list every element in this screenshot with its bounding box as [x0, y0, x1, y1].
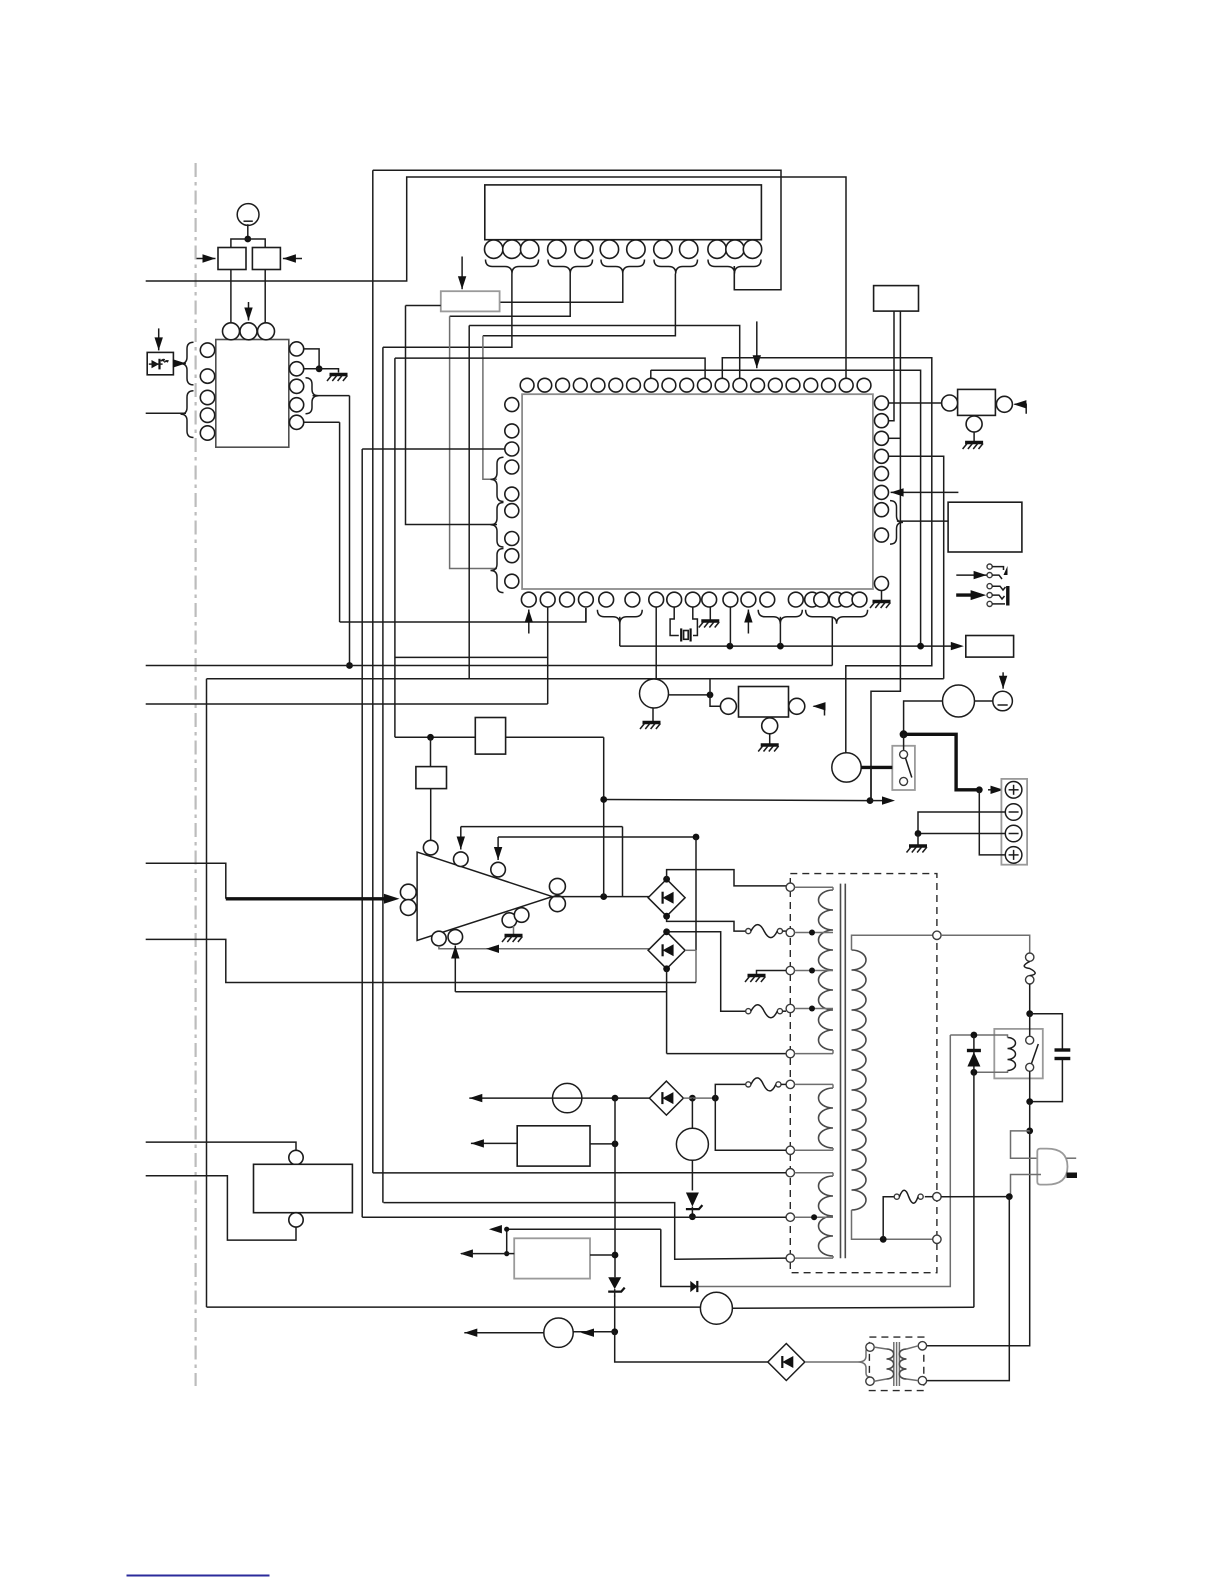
wire plug down	[927, 1197, 1010, 1381]
wire line679	[207, 678, 944, 680]
microphone MIC1	[237, 204, 259, 226]
node B2 feed	[427, 734, 434, 741]
wire bus U1-b34 down	[349, 396, 351, 666]
wire loop down	[715, 1098, 786, 1150]
U3 top pin 11	[698, 378, 712, 392]
U3 left pin 4	[505, 460, 519, 474]
arrow hook into AMP2	[1015, 404, 1027, 413]
node plug join	[1006, 1193, 1013, 1200]
arrow into batt +	[988, 789, 1004, 791]
U3 top pin 17	[804, 378, 818, 392]
T1 primary A coil	[819, 890, 834, 1050]
T1 term 5	[786, 1049, 794, 1057]
wire line370	[651, 370, 921, 646]
U3 top pin 18	[822, 378, 836, 392]
T1 core	[840, 884, 842, 1259]
wire U1 pin5 right	[304, 421, 340, 423]
block B1	[475, 718, 505, 755]
U4 left pin	[720, 698, 736, 714]
brace U2 pins 6-7	[601, 260, 645, 274]
motor M6 body	[676, 1128, 708, 1160]
wire TF1 down	[1029, 984, 1031, 1014]
node plug top	[1026, 1128, 1033, 1135]
wire corner pin gnd	[881, 591, 883, 601]
AMP2 bottom pin	[966, 416, 982, 432]
amplifier AMP1 body	[417, 852, 552, 940]
indicator LED2	[544, 1318, 573, 1347]
U3 bottom pin 16	[814, 592, 829, 607]
wire line800	[604, 800, 870, 801]
switch SW1 contacts	[903, 734, 905, 750]
wire relay down	[1029, 1102, 1031, 1131]
wire BR1 bottom route	[667, 916, 746, 931]
wire zd1 to BR3	[615, 1332, 768, 1362]
IC U1 body	[216, 340, 289, 448]
node l646 b	[777, 643, 784, 650]
crystal X1 left lead	[670, 607, 679, 636]
T2 core	[893, 1342, 895, 1386]
wire M4 left	[904, 701, 943, 734]
node on line645	[346, 662, 353, 669]
block M2 (mic amp R)	[252, 248, 280, 270]
wire line646	[620, 645, 953, 647]
IC U2 body (DSP)	[485, 185, 762, 240]
U1 right pin 1	[290, 342, 304, 356]
wire 1229 corner down	[661, 1229, 691, 1286]
U3 left pin 8	[505, 549, 519, 563]
footer rule	[127, 1575, 270, 1577]
block U4 (motor driver)	[739, 687, 789, 718]
wire bus696 lower	[695, 950, 697, 982]
block B2	[416, 767, 447, 789]
brace U3 right pins 7-8	[890, 501, 903, 544]
U2 pin 12	[743, 240, 761, 258]
T2 left coil	[887, 1349, 894, 1379]
wire bus950 down	[697, 1035, 950, 1287]
U1 left pin 2	[200, 369, 214, 383]
wire node to U4	[710, 695, 721, 706]
jack J2 contact 3	[987, 601, 992, 606]
fuse F3	[746, 1082, 751, 1087]
wire BR4 to loop	[683, 1097, 715, 1099]
block REG1	[517, 1126, 590, 1166]
U3 left pin 2	[505, 424, 519, 438]
U2 pin 8	[654, 240, 672, 258]
wire sec tap up	[883, 1197, 894, 1240]
U3 bottom pin 12	[741, 592, 756, 607]
wire brace1314 stem	[779, 617, 781, 646]
U3 top pin 2	[538, 378, 552, 392]
block U5 bottom pin	[289, 1213, 303, 1227]
U2 pin 5	[575, 240, 593, 258]
U4 bottom pin	[762, 718, 778, 734]
node BR1 bottom	[663, 913, 670, 920]
wire F2 to T1	[783, 1010, 787, 1012]
U3 top pin 16	[786, 378, 800, 392]
wire fuse line	[941, 1196, 1009, 1198]
brace U1 left pins 1-2	[181, 342, 194, 385]
bold wire input1 to AMP1	[226, 897, 388, 900]
photo sensor PD1 symbol	[152, 360, 160, 368]
U3 top pin 10	[680, 378, 694, 392]
wire brace78 to U8	[897, 520, 948, 522]
wire F3 to T1	[781, 1083, 786, 1085]
T1 term 10	[786, 1254, 794, 1262]
U3 bottom pin 9	[685, 592, 700, 607]
AMP1 out pin a	[549, 878, 565, 894]
wire BR2 bottom down	[666, 969, 668, 1054]
wire plug upper lead	[1011, 1131, 1042, 1158]
resonator X2 box	[874, 286, 919, 312]
wire bus nest2 down	[361, 449, 363, 1217]
AMP1 top pin3	[491, 862, 506, 877]
zener ZD1	[608, 1277, 621, 1289]
wire bus nest1 down (from loop)	[372, 170, 374, 1173]
T2 lead a	[874, 1347, 886, 1349]
relay RY1 box	[994, 1029, 1043, 1079]
block U9 (phones driver)	[966, 636, 1014, 658]
wire node branch up	[709, 679, 711, 695]
ground G-U1	[330, 373, 348, 376]
wire U1 brace34 to bus	[313, 395, 350, 397]
wire batt -2	[918, 833, 1005, 835]
node batt plus	[976, 786, 983, 793]
wire U3 bp7 down (spindle)	[655, 607, 657, 680]
brace U2 pins 1-3	[486, 260, 539, 274]
wire X2legB join	[870, 767, 872, 800]
node reg2	[612, 1252, 619, 1259]
T2 lead c	[907, 1346, 919, 1349]
relay coil	[1008, 1038, 1016, 1071]
motor M4 body	[943, 685, 975, 717]
arrow into U3 bp1	[528, 610, 530, 634]
node cap top	[1026, 1010, 1033, 1017]
T2 lead b	[874, 1379, 886, 1381]
U3 bottom pin 4	[579, 592, 594, 607]
wire coil top lead	[950, 1035, 1007, 1038]
wire bus U1-p5 down	[339, 422, 341, 622]
motor M5 body	[832, 753, 861, 782]
wire M1 to IC1 pin1	[230, 270, 232, 324]
wire brace56 stem to line646	[619, 617, 621, 646]
T1 sec top term	[933, 931, 941, 939]
jack J2 contact 1	[987, 584, 992, 589]
wire line1330 left	[464, 1332, 544, 1334]
U3 bottom pin 2	[540, 592, 555, 607]
wire AMP1 gnd stem	[513, 926, 515, 935]
T1 primary C coil	[819, 1176, 834, 1256]
wire U3 rp1 to AMP2	[889, 402, 942, 404]
brace U3 bp13-14	[758, 610, 802, 624]
node U1 pin2 junction	[316, 365, 323, 372]
rectifier BR2	[648, 932, 685, 969]
wire line991	[455, 991, 666, 993]
U4 right pin	[789, 698, 805, 714]
U3 top pin 8	[644, 378, 658, 392]
T1 term 2 tap	[786, 928, 794, 936]
ground G-AMP1	[505, 934, 523, 937]
node relay out	[1026, 1098, 1033, 1105]
switch SW1 box	[892, 746, 915, 790]
node l646 c	[917, 643, 924, 650]
T2 right coil	[899, 1349, 906, 1379]
AMP1 bot pin1	[432, 931, 447, 946]
AMP1 bot pin3	[502, 913, 517, 928]
U3 bottom pin 5	[599, 592, 614, 607]
zener ZD2	[686, 1193, 699, 1207]
T1 term 3 tap	[786, 966, 794, 974]
wire REG1 out	[590, 1143, 615, 1145]
node bus603 tap	[600, 796, 607, 803]
wire line622	[340, 608, 586, 622]
wire amp output	[552, 896, 649, 898]
rectifier BR3	[768, 1344, 805, 1381]
U3 top pin 4	[573, 378, 587, 392]
bold wire to battery +	[904, 734, 980, 790]
ground G-BT1	[909, 844, 927, 847]
AMP1 in pin a	[400, 884, 416, 900]
T1 secondary bottom lead	[852, 1210, 933, 1239]
arrow into U3 rp6	[891, 491, 959, 493]
wire line1229	[507, 1228, 661, 1230]
U3 top pin 6	[609, 378, 623, 392]
T1 term 9 tap	[786, 1213, 794, 1221]
T1 sec bottom term	[933, 1235, 941, 1243]
U2 pin 9	[680, 240, 698, 258]
brace U3 left pins 4-5	[491, 457, 504, 501]
wire bus nest3 down	[382, 347, 384, 1202]
brace U3 bp15-19	[806, 610, 868, 624]
gray wire BR2 right	[685, 949, 696, 951]
U1 right pin 2	[290, 362, 304, 376]
jack J2 sleeve	[1006, 586, 1009, 606]
wire line1330	[573, 1331, 615, 1333]
T2 term b	[866, 1377, 874, 1385]
wire REG2 in	[507, 1253, 515, 1255]
battery terminal 3 (-)	[1005, 825, 1022, 842]
wire reg2 T	[506, 1229, 508, 1253]
wire input to U1 brace2	[146, 412, 186, 414]
U3 top pin 12	[715, 378, 729, 392]
U3 right pin 3	[875, 431, 889, 445]
T1 secondary coil	[852, 950, 867, 1210]
crystal X1 body	[684, 631, 689, 640]
wire DL1 left route	[406, 305, 441, 307]
jack J1 contact 1	[987, 564, 992, 569]
wire U2 brace1 route	[383, 274, 512, 348]
arrow into J1	[956, 574, 986, 576]
battery terminal 1 (+)	[1005, 782, 1022, 799]
wire U3 bp2 down	[547, 607, 549, 704]
wire line1173 to T8	[373, 1172, 786, 1174]
U3 bottom pin 11	[723, 592, 738, 607]
node l646 a	[727, 643, 734, 650]
arrow PD1 to brace	[174, 362, 186, 364]
T2 term c	[918, 1342, 926, 1350]
node t1229	[504, 1227, 509, 1232]
wire plug lower lead	[1011, 1175, 1042, 1197]
wire sec to thermal fuse	[941, 935, 1030, 953]
transformer T2 enclosure	[869, 1337, 923, 1391]
wire loop outer top	[373, 170, 781, 289]
U1 left pin 1	[200, 343, 214, 357]
U3 left pin 9	[505, 574, 519, 588]
U2 pin 7	[627, 240, 645, 258]
wire batt -1	[918, 812, 1005, 834]
U2 pin 10	[708, 240, 726, 258]
U3 left pin 6	[505, 504, 519, 518]
wire feed AMP1 pin3	[498, 836, 696, 838]
arrow hook into U4	[814, 706, 825, 715]
U3 right pin 1	[875, 396, 889, 410]
fold line (dash-dot page divider)	[195, 163, 197, 1386]
arrow into M1	[197, 258, 216, 260]
U3 right pin 8	[875, 528, 889, 542]
arrow into SW1 bottom	[870, 800, 884, 802]
node BR2 bottom	[663, 965, 670, 972]
T2 lead d	[907, 1379, 919, 1381]
wire U1 pin2 to ground	[304, 369, 339, 373]
wire B2 stem up	[430, 737, 432, 766]
rectifier BR1	[648, 879, 685, 916]
U3 top pin 1	[520, 378, 534, 392]
AMP1 top pin2	[454, 852, 469, 867]
plug P1 prong 1	[1067, 1157, 1077, 1159]
wire zd1 down	[614, 1295, 616, 1332]
wire BR1 top route	[667, 870, 786, 886]
plug P1 body	[1037, 1149, 1067, 1185]
wire coil bottom lead	[974, 1071, 1008, 1073]
U3 bottom pin 19	[852, 592, 867, 607]
wire line1307 right	[732, 1306, 974, 1309]
transformer T1 enclosure	[790, 874, 937, 1273]
wire BR2 top route	[667, 932, 746, 1011]
U2 pin 4	[548, 240, 566, 258]
U3 right pin 4	[875, 449, 889, 463]
wire bus603	[603, 737, 605, 896]
arrow into cw symbol	[1002, 672, 1004, 688]
AMP2 right pin	[996, 396, 1012, 412]
U3 right pin 7	[875, 503, 889, 517]
wire X2 leg B	[871, 311, 900, 800]
ground G-U3B	[701, 619, 719, 622]
capacitor C1	[1055, 1048, 1071, 1051]
wire brace1519 stem	[831, 617, 833, 666]
U3 left pin 7	[505, 532, 519, 546]
wire U2 brace5 stem	[733, 266, 735, 290]
block U5 body	[254, 1164, 353, 1212]
wire U3 rp4 route	[889, 456, 944, 679]
wire line657	[395, 656, 548, 658]
T2 term a	[866, 1343, 874, 1351]
wire B2 to AMP1 pin1	[430, 789, 432, 841]
bold arrow into J2	[956, 593, 975, 596]
wire bus nest6 down	[468, 326, 470, 679]
diode D2	[690, 1281, 697, 1292]
U3 bottom pin 15	[805, 592, 820, 607]
wire AMP2 gnd stem	[973, 432, 975, 442]
wire line704	[146, 703, 548, 705]
U1 left pin 5	[200, 426, 214, 440]
U2 pin 2	[503, 240, 521, 258]
U1 right pin 4	[290, 398, 304, 412]
U3 left pin 5	[505, 487, 519, 501]
wire line1203 route	[384, 1203, 787, 1260]
block M1 (mic amp L)	[218, 248, 246, 270]
wire to T1 tap5	[667, 1053, 786, 1055]
battery holder BT1	[1001, 779, 1027, 865]
U3 top pin 14	[751, 378, 765, 392]
wire line737 left	[395, 736, 475, 738]
node batt minus	[915, 830, 922, 837]
wire U3 bp4 up	[585, 608, 587, 622]
node BR1 top	[663, 876, 670, 883]
node M3 out	[707, 692, 714, 699]
U3 bottom pin 10	[702, 592, 717, 607]
node sw feed	[900, 730, 908, 738]
battery terminal 4 (+)	[1005, 847, 1022, 864]
wire led1 to BR4	[615, 1097, 650, 1099]
relay contacts	[1026, 1036, 1034, 1044]
wire line358b	[722, 358, 932, 753]
lamp LA1	[700, 1292, 732, 1324]
wire M2 to IC1 pin3	[264, 270, 266, 324]
wire input4	[146, 1176, 296, 1240]
wire U2 brace4 route	[483, 274, 676, 336]
brace U2 pins 10-12	[708, 260, 761, 274]
wire T3 gnd	[757, 971, 787, 975]
wire M6 down	[691, 1160, 693, 1190]
U3 right pin 6	[875, 485, 889, 499]
U3 top pin 9	[662, 378, 676, 392]
wire M3 gnd stem	[652, 708, 654, 722]
T1 fuse term	[933, 1193, 941, 1201]
node amp out	[600, 893, 607, 900]
U3 top pin 13	[733, 378, 747, 392]
U2 pin 11	[726, 240, 744, 258]
wire line358a	[395, 358, 705, 378]
wire input1	[146, 863, 226, 899]
wire REG2 out	[590, 1254, 615, 1256]
wire bus974 down	[973, 1072, 975, 1307]
brace U3 left pins 8-9	[491, 549, 504, 593]
T1 term 1	[786, 883, 794, 891]
arrow into M2	[283, 258, 302, 260]
AMP1 bot pin2	[448, 930, 463, 945]
U3 right corner pin	[875, 577, 889, 591]
node zd2	[689, 1213, 696, 1220]
U3 bottom pin 3	[560, 592, 575, 607]
wire F1 to T1	[783, 930, 787, 932]
T1 term 6	[786, 1080, 794, 1088]
AMP1 top pin1	[423, 840, 438, 855]
wire relay out	[1029, 1071, 1031, 1101]
arrow into PD1	[158, 328, 160, 350]
node mic junction	[244, 236, 251, 243]
node t1253	[504, 1251, 509, 1256]
U3 top pin 5	[591, 378, 605, 392]
wire U3 bp11 down	[729, 607, 731, 646]
wire U3 rp2 up	[889, 311, 895, 421]
arrow line646 into U9	[951, 642, 964, 650]
U3 top pin 7	[627, 378, 641, 392]
wire line737 right	[506, 736, 604, 738]
wire bus615	[614, 1098, 616, 1277]
wire batt gnd stem	[917, 834, 919, 846]
wire line1098	[469, 1097, 615, 1099]
plug P1 prong 2	[1067, 1173, 1078, 1179]
node led1 right	[612, 1095, 619, 1102]
